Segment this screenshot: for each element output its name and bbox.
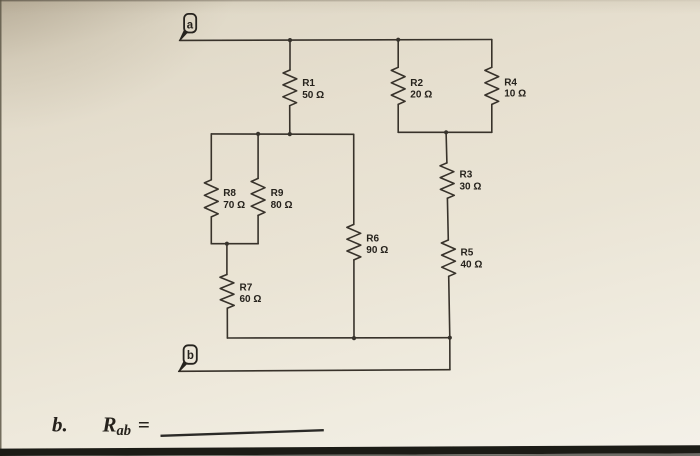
svg-text:40 Ω: 40 Ω — [461, 259, 483, 270]
svg-text:Rab =: Rab = — [102, 413, 150, 440]
wire: R9 top lead — [257, 134, 259, 179]
svg-text:20 Ω: 20 Ω — [410, 90, 432, 101]
wire: R1 top lead — [289, 40, 291, 70]
resistor R1 — [283, 70, 297, 106]
svg-text:30 Ω: 30 Ω — [460, 182, 482, 193]
junction: a-rail / R2 — [396, 38, 400, 42]
resistor R8 — [204, 180, 218, 217]
svg-text:b.: b. — [52, 413, 68, 437]
wire: R2 bottom lead — [397, 104, 399, 132]
junction: bottom rail / R5 drop — [448, 336, 452, 340]
svg-text:R1: R1 — [302, 78, 315, 89]
node a terminal box — [184, 14, 196, 33]
svg-text:R8: R8 — [223, 188, 236, 199]
photo edge: bottom dark band — [0, 445, 700, 456]
node a arrow tail — [179, 30, 189, 41]
wire: R7 bottom lead — [226, 308, 228, 338]
junction: bottom rail / R6 — [352, 336, 356, 340]
wire: R4 bottom lead — [491, 104, 493, 132]
wire: middle rail (R8/R9/R1/R6 node) — [211, 133, 353, 135]
svg-text:R7: R7 — [240, 283, 253, 294]
resistor R7 — [220, 275, 234, 309]
svg-text:80 Ω: 80 Ω — [271, 200, 293, 211]
resistor R4 — [485, 67, 499, 104]
junction: R8-R9 rail / R7 — [225, 242, 229, 246]
wire: R8 top lead — [210, 134, 212, 180]
node b arrow tail — [178, 361, 188, 372]
wire: R5 bottom lead — [449, 276, 450, 337]
resistor R9 — [251, 178, 265, 215]
wire: R8-R9 bottom rail — [211, 243, 258, 245]
svg-text:R3: R3 — [460, 170, 473, 181]
wire: R9 bottom lead — [257, 215, 259, 243]
junction: R2-R4 rail / R3 — [444, 130, 448, 134]
wire: bottom node-b rail — [179, 370, 450, 372]
svg-text:R9: R9 — [271, 188, 284, 199]
svg-text:50 Ω: 50 Ω — [302, 90, 324, 101]
wire: R6 bottom lead — [353, 260, 355, 338]
resistor R2 — [391, 67, 405, 104]
svg-text:60 Ω: 60 Ω — [240, 294, 262, 305]
photo edge: bottom band lower gray strip — [0, 453, 700, 456]
svg-text:R2: R2 — [410, 78, 423, 89]
wire: R3 top lead — [445, 132, 448, 163]
svg-text:90 Ω: 90 Ω — [366, 245, 388, 256]
svg-text:R6: R6 — [366, 234, 379, 245]
wire: R2-R4 bottom rail — [398, 131, 492, 133]
answer blank line — [161, 430, 324, 436]
resistor R6 — [347, 224, 361, 260]
junction: middle rail / R9 — [256, 132, 260, 136]
wire: R8 bottom lead — [210, 217, 212, 244]
wire: R1 bottom lead — [289, 106, 291, 134]
resistor R5 — [441, 240, 455, 276]
wire: R6 top lead — [353, 134, 355, 224]
junction: a-rail / R1 — [288, 38, 292, 42]
wire: right drop to node-b rail — [449, 338, 451, 370]
wire: R3-R5 middle lead — [446, 198, 449, 240]
wire: R2 top lead — [397, 40, 399, 68]
node b terminal box — [184, 345, 197, 364]
wire: R7 top lead — [226, 244, 228, 275]
svg-text:70 Ω: 70 Ω — [223, 200, 245, 211]
wire: top node-a rail — [180, 39, 492, 42]
svg-text:R4: R4 — [504, 78, 517, 89]
svg-text:a: a — [187, 20, 194, 32]
resistor R3 — [440, 163, 454, 198]
svg-text:R5: R5 — [461, 247, 474, 258]
wire: bottom rail (R7/R6/R5 node) — [227, 337, 449, 339]
wire: R4 top lead — [491, 40, 493, 68]
svg-text:b: b — [187, 350, 194, 362]
svg-text:10 Ω: 10 Ω — [504, 89, 526, 100]
junction: middle rail / R1 — [288, 132, 292, 136]
photo edge: left — [0, 0, 2, 456]
